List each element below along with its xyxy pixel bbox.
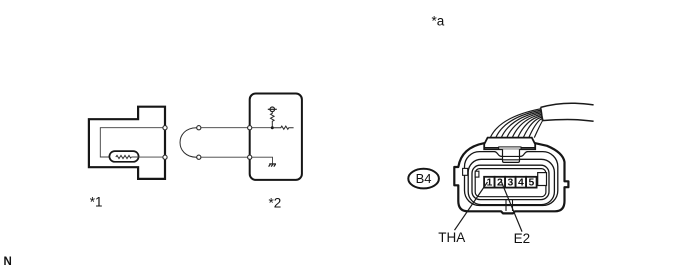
wire THA harness to ECU box [201, 127, 250, 129]
leader line to E2 (pin 2) [502, 182, 523, 232]
wire THA inside box to junction [252, 127, 272, 129]
ECU box *2 [250, 94, 302, 180]
resistor zigzag inside thermistor [116, 155, 132, 158]
pin cavity frame inner [475, 169, 546, 197]
boot (wire cover) on top [484, 138, 535, 150]
pin boxes 1-5 [484, 177, 536, 188]
svg-text:*a: *a [432, 14, 445, 29]
center latch block [503, 149, 520, 162]
svg-text:*2: *2 [269, 196, 282, 211]
svg-text:5: 5 [529, 178, 535, 189]
svg-text:*1: *1 [90, 194, 103, 209]
ECU pin circle E2 [248, 155, 252, 159]
series resistor horizontal zigzag to ECU internal [272, 126, 293, 129]
wire bundle fan [490, 109, 543, 138]
svg-text:2: 2 [497, 178, 503, 189]
connector ring 2 [468, 159, 554, 204]
sensor pin circle top [163, 126, 167, 130]
svg-text:4: 4 [518, 178, 524, 189]
channel recess in ring1 top [495, 151, 528, 157]
harness pin circle bottom [197, 155, 201, 159]
svg-text:E2: E2 [514, 231, 531, 246]
connector code ellipse B4 [408, 169, 439, 189]
svg-text:3: 3 [508, 178, 514, 189]
key notch on ring1 left [463, 168, 468, 175]
wire top net inside sensor [100, 128, 165, 157]
ground symbol [269, 164, 276, 167]
boot slot tray [499, 147, 521, 149]
junction node dot [271, 126, 274, 129]
svg-text:THA: THA [438, 230, 465, 245]
leader line to THA (pin 1) [455, 182, 488, 230]
svg-text:1: 1 [487, 178, 493, 189]
wire from thermistor to sensor pin 2 [131, 156, 165, 158]
pull-up resistor vertical zigzag [271, 112, 275, 128]
bottom lock notch between rings [506, 200, 513, 211]
sensor pin circle bottom [163, 155, 167, 159]
connector B4 outer body [454, 143, 568, 213]
svg-text:B4: B4 [416, 171, 432, 186]
thermistor element R (stadium body) [109, 151, 138, 162]
pin cavity frame outer [472, 165, 549, 199]
connector ring 1 [465, 152, 558, 206]
harness connector arc [180, 128, 197, 158]
wire E2 harness to ECU box [201, 156, 250, 158]
blank slot right of pin row [538, 173, 547, 186]
key notch inside frame top-left [475, 171, 479, 177]
ECU pin circle THA [248, 126, 252, 130]
svg-text:N: N [4, 256, 12, 268]
wire E2 inside box to ground [252, 157, 273, 164]
component *1 sensor housing outline [89, 107, 165, 179]
power terminal symbol (circle with bar) [268, 107, 277, 112]
harness pin circle top [197, 126, 201, 130]
harness tube (wire sheath) [541, 103, 594, 121]
